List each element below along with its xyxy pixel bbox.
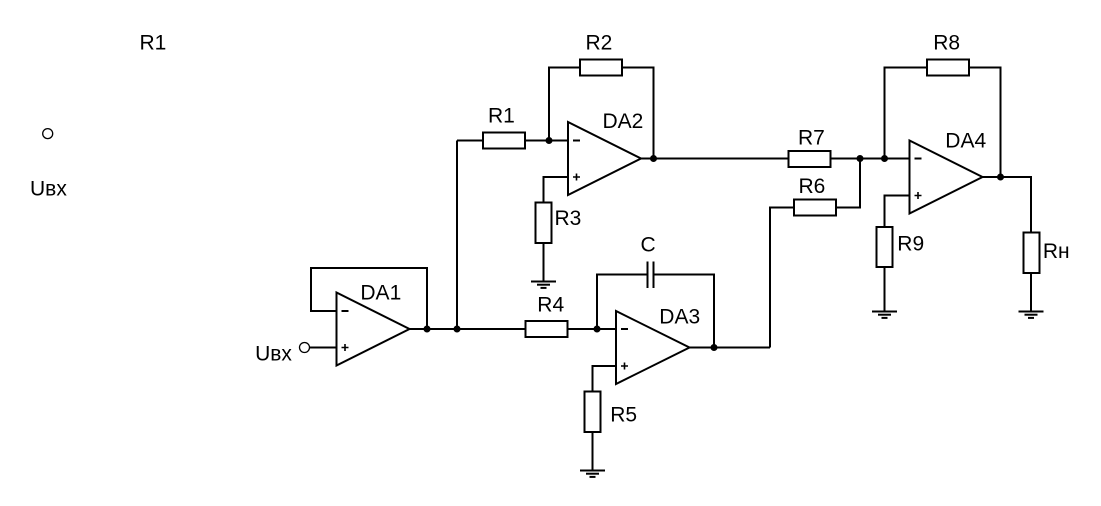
junction DA1 output/feedback [424, 326, 431, 333]
svg-text:R7: R7 [798, 126, 825, 149]
pin marker DA3 non-inverting (+) [621, 363, 628, 370]
wire R8 left leg [885, 68, 927, 159]
resistor RH (load) [1024, 233, 1040, 274]
wire R1 left lead [457, 140, 482, 142]
svg-text:DA3: DA3 [659, 306, 700, 329]
wire DA4 output [983, 177, 1032, 232]
pin marker DA4 inverting (-) [915, 158, 922, 160]
resistor R2 [580, 60, 622, 76]
wire R4 right lead to DA3 - [569, 328, 617, 330]
wire DA4 + lead [885, 196, 910, 227]
junction DA3 output / C feedback [711, 344, 718, 351]
pin marker DA2 inverting (-) [573, 140, 580, 142]
svg-text:R4: R4 [537, 294, 564, 317]
svg-text:R2: R2 [586, 31, 613, 54]
svg-text:Uвх: Uвх [255, 342, 292, 365]
ground below R3 [531, 282, 556, 288]
wire R5 to ground [592, 433, 594, 471]
wire R2 left leg [549, 68, 579, 141]
op-amp DA2 [568, 122, 641, 195]
op-amp DA4 [910, 141, 983, 214]
resistor R8 [927, 60, 969, 76]
svg-text:R9: R9 [897, 233, 924, 256]
svg-text:R5: R5 [610, 404, 637, 427]
node Uвх terminal (stray, top-left) [43, 129, 53, 139]
junction R2 left leg / DA2 - input [546, 137, 553, 144]
wire R7 right to DA4 - [832, 158, 910, 160]
junction DA4 output / R8 feedback [997, 174, 1004, 181]
wire riser to R1 [456, 141, 458, 330]
svg-text:C: C [641, 234, 656, 257]
svg-text:DA4: DA4 [945, 129, 986, 152]
svg-text:R3: R3 [555, 207, 582, 230]
wire DA2 output to R7 [641, 158, 788, 160]
resistor R1 [483, 133, 525, 149]
wire R8 right leg [970, 68, 1001, 178]
wire DA3 output [690, 347, 771, 349]
svg-text:R6: R6 [799, 175, 826, 198]
pin marker DA1 non-inverting (+) [342, 344, 349, 351]
wire DA1 output [410, 328, 525, 330]
junction R6/R7 [857, 155, 864, 162]
wire R1 right lead to DA2 - [526, 140, 568, 142]
svg-text:DA2: DA2 [603, 110, 644, 133]
svg-text:R8: R8 [933, 32, 960, 55]
pin marker DA4 non-inverting (+) [915, 192, 922, 199]
wire DA2 + lead [544, 177, 569, 202]
pin marker DA1 inverting (-) [342, 310, 349, 312]
svg-text:R1: R1 [488, 105, 515, 128]
svg-text:Uвх: Uвх [30, 177, 67, 200]
pin marker DA2 non-inverting (+) [573, 174, 580, 181]
junction DA2 output / R2 feedback [650, 155, 657, 162]
op-amp DA3 [616, 311, 690, 384]
resistor R3 [536, 203, 552, 244]
wire R9 to ground [884, 268, 886, 312]
svg-text:Rн: Rн [1043, 240, 1070, 263]
ground below RH [1019, 312, 1044, 318]
junction R8 leg / DA4 - input [881, 155, 888, 162]
op-amp DA1 [337, 293, 410, 366]
resistor R5 [585, 392, 601, 433]
svg-text:DA1: DA1 [360, 282, 401, 305]
wire DA3 + lead [593, 366, 617, 391]
wire RH to ground [1030, 274, 1032, 312]
wire R3 to ground [543, 244, 545, 282]
wire R6 left riser [770, 208, 793, 348]
resistor R6 [794, 200, 836, 216]
wire input terminal to DA1 + [310, 347, 337, 349]
wire C left leg [597, 275, 647, 330]
node Uвх input terminal [300, 343, 310, 353]
junction DA1 output/R1 branch [454, 326, 461, 333]
capacitor C [648, 262, 654, 289]
wire R2 right leg [623, 68, 654, 159]
junction C left leg / DA3 - input [594, 326, 601, 333]
resistor R4 [526, 321, 568, 337]
resistor R9 [877, 227, 893, 267]
ground below R5 [580, 471, 605, 477]
ground below R9 [872, 312, 897, 318]
wire R6 right riser [837, 159, 860, 208]
svg-text:R1: R1 [140, 32, 167, 55]
pin marker DA3 inverting (-) [621, 328, 628, 330]
resistor R7 [789, 151, 831, 167]
wire C right leg [655, 275, 715, 348]
wire DA1 feedback loop [311, 268, 427, 329]
